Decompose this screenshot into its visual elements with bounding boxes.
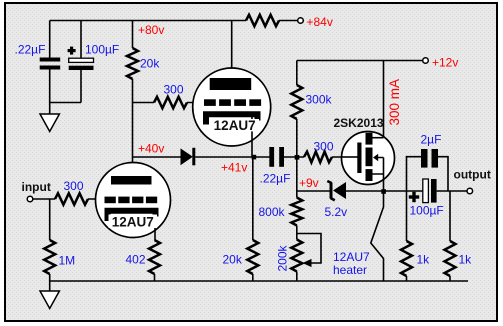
wire +12v rail <box>297 60 423 62</box>
ground (power supply) <box>40 114 59 132</box>
svg-text:+80v: +80v <box>138 23 164 37</box>
wire 100uF top lead <box>80 21 82 59</box>
capacitor C5 100uF output <box>409 179 437 203</box>
wire source to 2uF tap <box>384 190 423 192</box>
svg-text:200k: 200k <box>276 244 290 271</box>
svg-text:2SK2013: 2SK2013 <box>334 116 384 130</box>
potentiometer 200k <box>291 240 302 272</box>
resistor 1k left <box>401 241 412 276</box>
wire diode to coupling cap <box>195 156 269 158</box>
wire top +80v rail <box>50 20 246 22</box>
wire 800k to pot <box>296 226 298 240</box>
resistor 1M <box>44 240 55 274</box>
zener diode 5.2v <box>327 181 346 200</box>
terminal input <box>27 196 33 202</box>
svg-text:12AU7: 12AU7 <box>214 118 256 133</box>
wire gate node to zener <box>297 190 330 192</box>
svg-text:.22µF: .22µF <box>260 172 291 186</box>
resistor top dropper to +84v <box>246 15 279 26</box>
wire 1M top lead <box>49 199 51 240</box>
wire input to 300 <box>33 198 55 200</box>
wire 100uF to output <box>437 190 467 192</box>
svg-text:+9v: +9v <box>299 176 319 190</box>
svg-text:1k: 1k <box>417 253 431 267</box>
wire cap to gate resistor <box>284 156 304 158</box>
wire pot wiper strap <box>297 234 321 264</box>
svg-text:12AU7: 12AU7 <box>112 215 154 230</box>
resistor 300k <box>291 85 302 119</box>
wire .22uF top lead <box>49 21 51 58</box>
svg-text:input: input <box>22 180 51 194</box>
wire ground rail <box>50 280 468 282</box>
svg-text:2µF: 2µF <box>421 133 442 147</box>
wire drain lead from +12v rail <box>383 61 385 138</box>
svg-text:100µF: 100µF <box>410 204 444 218</box>
wire heater drop (flex) <box>371 191 384 281</box>
svg-text:1k: 1k <box>459 253 473 267</box>
svg-text:300: 300 <box>164 83 184 97</box>
svg-text:+41v: +41v <box>221 161 247 175</box>
resistor 20k (plate load) <box>127 48 138 79</box>
svg-text:+12v: +12v <box>432 56 458 70</box>
wire 2uF loop left <box>407 157 422 191</box>
wire 20k tail lead <box>252 157 254 240</box>
wire to MOSFET gate <box>332 156 358 158</box>
resistor 1k right <box>445 241 456 276</box>
node source junction dot <box>381 189 386 194</box>
node +41v junction dot <box>252 155 257 160</box>
ground (input side) <box>40 291 59 309</box>
wire 20k to lower tube plate <box>132 79 134 163</box>
svg-text:300: 300 <box>64 179 84 193</box>
svg-text:.22µF: .22µF <box>15 43 46 57</box>
capacitor C1 .22uF <box>40 58 61 70</box>
svg-text:100µF: 100µF <box>85 43 119 57</box>
svg-text:800k: 800k <box>259 205 286 219</box>
svg-text:20k: 20k <box>140 57 160 71</box>
wire 800k top lead <box>296 191 298 198</box>
svg-text:402: 402 <box>126 253 146 267</box>
resistor 20k (cathode follower tail) <box>247 240 258 274</box>
resistor 800k <box>291 198 302 226</box>
transistor Q1 2SK2013 <box>342 132 395 192</box>
svg-text:5.2v: 5.2v <box>325 205 348 219</box>
op-amp U1 12AU7 lower triode <box>96 163 171 241</box>
wire 1k right lead <box>449 191 451 241</box>
capacitor C2 100uF polarized <box>68 47 94 70</box>
resistor 300 (upper grid stopper) <box>154 97 187 108</box>
svg-text:+40v: +40v <box>138 142 164 156</box>
svg-text:300: 300 <box>314 140 334 154</box>
wire upper tube plate lead <box>231 21 233 79</box>
svg-text:20k: 20k <box>223 253 243 267</box>
wire pot bottom lead <box>296 272 298 282</box>
svg-text:1M: 1M <box>59 254 76 268</box>
wire to +84v terminal <box>279 20 298 22</box>
pot wiper arrow <box>303 259 312 267</box>
svg-text:300 mA: 300 mA <box>387 79 402 126</box>
op-amp U2 12AU7 upper triode <box>193 68 271 157</box>
svg-text:300k: 300k <box>306 93 333 107</box>
wire zener to source node <box>346 190 384 192</box>
wire .22uF bottom lead <box>50 70 81 103</box>
svg-text:12AU7: 12AU7 <box>333 250 370 264</box>
resistor 300 gate stopper <box>304 152 332 163</box>
capacitor C4 2uF <box>421 149 438 168</box>
svg-text:heater: heater <box>333 263 367 277</box>
wire 100uF bottom lead <box>80 70 82 103</box>
node junction dot gate <box>295 155 300 160</box>
wire grid lead lower tube <box>88 198 105 200</box>
wire 300 grid feed left lead <box>133 102 155 104</box>
svg-text:output: output <box>454 168 491 182</box>
wire ground stem <box>49 103 51 115</box>
terminal +84v <box>298 18 304 24</box>
capacitor C3 .22uF coupling <box>269 147 284 167</box>
wire 300k top lead <box>296 61 298 86</box>
diode D1 <box>181 148 196 166</box>
terminal output <box>467 188 473 194</box>
terminal +12v <box>423 58 429 64</box>
wire 2uF loop right <box>438 157 448 191</box>
wire plate to diode <box>133 156 182 158</box>
resistor 402 cathode <box>149 240 160 274</box>
wire 20k top lead <box>132 21 134 49</box>
wire grid lead upper tube <box>187 102 205 104</box>
wire ground stem input <box>49 281 51 291</box>
wire 1k left lead <box>406 191 408 241</box>
svg-text:+84v: +84v <box>307 15 333 29</box>
wire 300k to gate node <box>296 119 298 191</box>
resistor 300 input <box>55 193 88 204</box>
